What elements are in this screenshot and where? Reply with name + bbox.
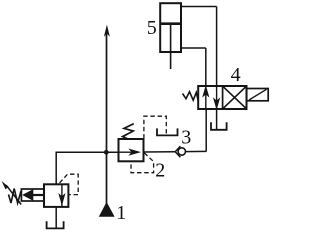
svg-text:1: 1 xyxy=(116,202,126,224)
svg-text:4: 4 xyxy=(231,64,241,86)
svg-text:2: 2 xyxy=(155,160,165,182)
svg-text:3: 3 xyxy=(181,127,191,149)
svg-text:5: 5 xyxy=(147,17,157,39)
